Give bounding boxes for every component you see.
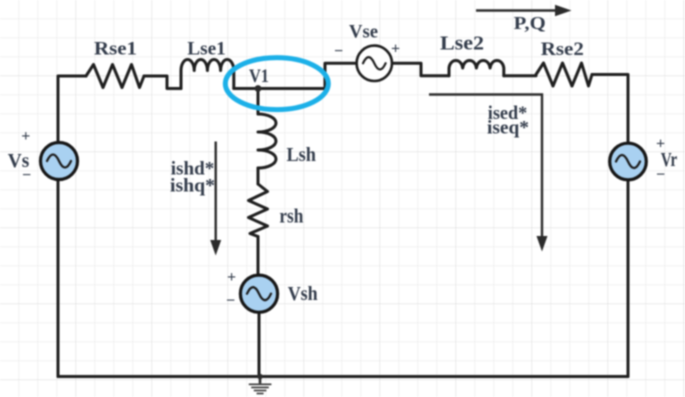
wire: bottom bus [58, 375, 628, 378]
svg-text:V1: V1 [249, 66, 269, 87]
svg-text:+: + [21, 128, 30, 145]
annotation ellipse highlighting node V1 [225, 58, 328, 110]
svg-text:−: − [334, 43, 343, 60]
svg-text:iseq*: iseq* [487, 118, 529, 139]
source Vsh [240, 275, 277, 312]
svg-text:rsh: rsh [279, 205, 303, 227]
ground [249, 377, 272, 394]
wire: Lse1 to node V1 and across [234, 87, 325, 90]
svg-text:Vse: Vse [349, 22, 378, 43]
wire: riser from node V1 line up to Vse [325, 63, 357, 88]
svg-text:Lsh: Lsh [286, 144, 316, 166]
wire: Vse to Lse2 (with jog down) [392, 63, 449, 75]
inductor Lse2 [449, 61, 504, 76]
wire: left rail from Vs up to top-left corner then to Rse1 [58, 76, 86, 143]
resistor Rse2 [536, 63, 592, 86]
svg-text:−: − [226, 293, 235, 310]
wire: Lsh to rsh [257, 168, 260, 184]
svg-text:+: + [227, 269, 236, 286]
svg-text:−: − [22, 167, 31, 184]
svg-text:−: − [656, 167, 665, 184]
svg-text:Lse1: Lse1 [187, 39, 226, 60]
source Vr [610, 143, 647, 180]
wire: Lse2 to Rse2 [504, 74, 536, 77]
arrow: P,Q power flow direction [476, 5, 572, 16]
junction dot: Vsh at bottom bus [257, 374, 263, 380]
arrow: ised*/iseq* series current reference [429, 95, 548, 252]
wire: Vsh to ground bus [258, 313, 261, 377]
svg-text:+: + [656, 136, 665, 153]
svg-text:ishq*: ishq* [170, 176, 215, 197]
resistor Rse1 [86, 65, 144, 88]
svg-text:Lse2: Lse2 [440, 33, 484, 55]
inductor Lse1 [181, 60, 234, 89]
svg-text:Rse2: Rse2 [541, 39, 584, 60]
resistor rsh [249, 184, 268, 237]
wire: rsh to Vsh [257, 237, 260, 276]
svg-text:P,Q: P,Q [514, 13, 546, 33]
svg-text:Vsh: Vsh [288, 283, 318, 305]
source Vse (series injected source, white) [357, 46, 392, 81]
svg-text:+: + [391, 41, 400, 58]
arrow: ishd*/ishq* shunt current reference [210, 142, 221, 256]
node V1 junction dot [255, 85, 262, 92]
wire: shunt drop from node V1 [257, 89, 260, 115]
wire: Vr down to bottom bus [627, 180, 630, 377]
wire: Vs down to bottom bus [57, 180, 60, 377]
wire: Rse2 to top-right corner down to Vr [592, 75, 628, 144]
svg-text:Rse1: Rse1 [94, 39, 137, 60]
inductor Lsh [258, 114, 276, 168]
wire: Rse1 to Lse1 (with jog down) [144, 76, 181, 89]
source Vs [41, 143, 78, 180]
